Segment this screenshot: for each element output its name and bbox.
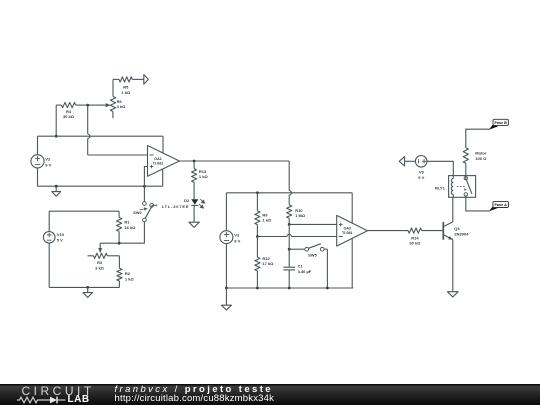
rail V3 plus [226,192,352,194]
resistor R12 [255,237,260,289]
flag Fase B [489,119,509,129]
label R4 [63,109,75,119]
transistor Q3 [443,222,453,240]
svg-text:9 V: 9 V [418,175,424,180]
svg-text:R12: R12 [262,256,270,261]
wire OA1 output corner down [289,161,291,205]
wire SW5 right down [326,249,328,288]
label V9 [418,169,424,180]
label V10 [57,232,65,243]
svg-text:RLY1: RLY1 [435,186,446,191]
label R5 value [121,85,131,95]
svg-text:V9: V9 [419,169,425,174]
svg-text:3.46 µF: 3.46 µF [298,269,312,274]
svg-text:R9: R9 [262,212,268,217]
junction dot R12 bottom [256,287,259,290]
relay RLY1 box [449,176,476,198]
wire junction down with hop [88,105,90,155]
label R1 [124,220,136,230]
wire to SW5 [289,248,305,250]
svg-text:9 V: 9 V [45,162,51,167]
resistor Motor [463,148,468,176]
transistor Q3 collector wire [452,197,454,222]
svg-text:1 kΩ: 1 kΩ [121,90,131,95]
wire OA1 V- supply [162,169,164,186]
svg-text:5 V: 5 V [57,238,63,243]
top rail of V2 loop [38,135,164,137]
label R10 [295,208,306,218]
junction dot ground tap lower [86,286,89,289]
wire OA2 output [367,230,408,232]
output flag terminal [144,75,149,85]
svg-text:OA2: OA2 [344,226,352,230]
wire OA1 plus input bracket [144,167,147,187]
wire V2 top [37,136,39,155]
voltage source V2 [31,155,44,168]
svg-text:R2: R2 [125,271,131,276]
switch SW2 [140,202,158,222]
wire SW2 down [100,222,144,243]
svg-text:1 kΩ: 1 kΩ [125,277,135,282]
rail to OA2 minus input [257,234,336,236]
label OA1 [153,157,164,166]
svg-text:TL081: TL081 [342,231,353,235]
label R6 [117,99,127,109]
input flag terminal [399,157,404,166]
label R14 [409,235,421,245]
wire to OA1 inverting input [88,154,148,156]
logo resistor-diode glyph [14,395,70,405]
label V2 [45,157,51,168]
wire OA2 V- supply [351,239,353,288]
junction dot V3 ground [225,287,228,290]
ground under Q3 [448,292,459,297]
junction dot SW5 C1 [288,248,291,251]
label R9 [262,212,272,222]
label R12 [262,256,274,266]
resistor R4 [56,103,91,108]
junction dot R4 left [55,135,58,138]
svg-text:LTL-307EE: LTL-307EE [162,204,190,209]
relay RLY1 contacts [457,176,472,198]
wire R13 to D2 [193,182,195,199]
resistor R5 [113,77,144,82]
footer bar [0,384,540,405]
svg-text:3 kΩ: 3 kΩ [117,104,127,109]
junction dot C1 bottom [288,287,291,290]
wire relay to Fase A [466,197,490,211]
svg-text:16 kΩ: 16 kΩ [124,225,136,230]
resistor R1 [117,211,122,243]
switch SW5 [305,244,328,251]
svg-text:2N3904: 2N3904 [454,231,469,236]
voltage source V10 [43,232,55,244]
svg-text:Q3: Q3 [454,226,460,231]
node junction R4-R6 wiper [86,104,89,107]
svg-text:V2: V2 [45,157,51,162]
junction dot R13 tap [193,160,196,163]
wire V3 top [225,193,227,231]
wire OA2 V+ supply [351,193,353,223]
resistor R9 [255,193,260,237]
ground symbol lower-left [83,287,92,297]
wire R10 junction down [288,224,290,249]
label RLY1 [435,186,446,191]
capacitor C1 [283,249,295,288]
resistor R13 [192,161,197,182]
wire OA1 output [179,160,289,162]
wire V9 left to flag [405,160,416,162]
ground symbol under V2 loop [52,186,61,196]
label OA2 [342,226,353,235]
junction dot R10 bottom [288,223,291,226]
label Motor [475,151,487,161]
wire V10 top [48,211,50,231]
potentiometer R3 [88,253,120,258]
svg-text:Fase A: Fase A [495,203,508,207]
svg-text:OA1: OA1 [154,157,162,161]
label SW5 [308,252,317,257]
wire R5 to R6 [112,79,114,96]
svg-text:D2: D2 [184,198,190,203]
svg-text:C1: C1 [298,264,304,269]
svg-text:Motor: Motor [475,151,487,156]
svg-text:SW5: SW5 [308,252,317,257]
wire OA1 V+ supply [162,136,164,153]
svg-text:17 kΩ: 17 kΩ [262,261,274,266]
junction dot R9 R12 [256,235,259,238]
junction dot R9 top [256,191,259,194]
svg-text:V10: V10 [57,232,65,237]
wire Q3 emitter to ground [452,239,454,291]
ground under D2 [189,222,199,227]
bottom rail of V2 loop [38,185,163,187]
LED D2 [191,199,204,208]
label C1 [298,264,312,275]
op-amp OA2 [337,215,368,246]
bottom rail V10 loop [49,286,119,288]
resistor R14 [408,228,443,233]
label R2 [125,271,135,281]
svg-text:30 kΩ: 30 kΩ [63,114,75,119]
wire V3 bottom [225,244,227,288]
label V3 [234,233,240,244]
wire V9 to relay [427,161,453,175]
ground under V3 [221,288,231,310]
flag Fase A [489,201,509,211]
junction dot SW5 bottom [326,287,329,290]
svg-text:1 kΩ: 1 kΩ [199,174,209,179]
svg-text:R3: R3 [97,260,103,265]
wire to OA2 plus input [289,223,337,225]
svg-text:Fase B: Fase B [494,121,507,125]
svg-text:R10: R10 [295,208,303,213]
junction dot R1 bottom [118,242,121,245]
svg-text:1 MΩ: 1 MΩ [295,213,306,218]
svg-text:3 kΩ: 3 kΩ [95,266,105,271]
potentiometer R6 [91,97,116,119]
wire V10 bottom [48,243,50,287]
svg-text:30 kΩ: 30 kΩ [409,241,421,246]
label Q3 [454,226,469,236]
svg-text:V3: V3 [234,233,240,238]
wire bracket to SW2 [143,186,145,201]
bottom rail middle [226,287,353,289]
wire V2 bottom [37,168,39,186]
relay RLY1 coil [451,176,453,198]
top rail V10 loop [49,210,119,212]
CircuitLab logo text [22,385,95,397]
svg-text:TL081: TL081 [153,162,164,166]
label R3 [95,260,105,271]
resistor R2 [117,256,122,288]
junction dot ground tap [55,185,58,188]
resistor R10 [287,205,292,225]
svg-text:1 kΩ: 1 kΩ [262,218,272,223]
label D2 [162,198,190,209]
label SW2 [133,210,142,215]
label R13 [199,169,209,179]
voltage source V3 [220,231,233,244]
wire D2 to ground [193,205,195,222]
svg-text:SW2: SW2 [133,210,142,215]
voltage source V9 [415,156,427,168]
svg-text:9 V: 9 V [234,238,240,243]
junction dot OA1 plus bracket [143,185,146,188]
credit text [115,385,275,404]
wire R4 left down to top rail [55,105,57,136]
wire R3 wiper from rail [98,243,102,253]
wire motor top corner [466,129,490,148]
op-amp OA1 [148,146,180,177]
svg-text:100 Ω: 100 Ω [475,156,487,161]
